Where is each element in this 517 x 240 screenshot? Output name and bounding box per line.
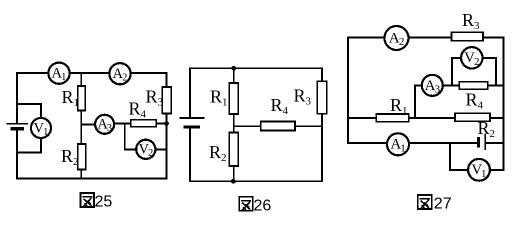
svg-text:R3: R3 xyxy=(462,10,480,32)
svg-text:R1: R1 xyxy=(62,87,80,109)
resistor R3 (circuit26) xyxy=(317,81,326,114)
ammeter A3 (circuit27) xyxy=(422,75,443,96)
ammeter A2 (circuit27) xyxy=(385,26,409,50)
ammeter A1 (circuit27) xyxy=(387,133,409,155)
wire top (circuit26) xyxy=(190,67,322,69)
resistor R1 (circuit27) xyxy=(376,114,409,122)
junction node top (circuit26) xyxy=(231,66,236,71)
svg-text:25: 25 xyxy=(95,194,113,211)
wire V1 branch right xyxy=(490,169,504,171)
resistor R2 (circuit27) xyxy=(455,113,490,121)
wire R1 row (circuit27) xyxy=(348,117,504,119)
resistor R4 xyxy=(131,120,157,127)
wire A3 to R4 xyxy=(114,122,167,124)
battery B3 short plate xyxy=(477,138,480,146)
wire V2 branch left xyxy=(452,57,461,59)
wire V1 branch left xyxy=(450,169,468,171)
wire bottom (circuit25) xyxy=(17,178,167,180)
wire A3 branch horizontal xyxy=(415,85,459,87)
wire left lower (circuit25) xyxy=(16,130,18,179)
resistor R1 (circuit26) xyxy=(229,83,238,114)
resistor R3 xyxy=(162,87,171,114)
wire top (circuit27) xyxy=(348,37,504,39)
svg-text:R3: R3 xyxy=(146,87,164,109)
wire bottom (circuit26) xyxy=(190,180,322,182)
wire V2 branch right xyxy=(155,149,167,151)
resistor R3 (circuit27) xyxy=(452,32,484,41)
wire bottom row (circuit27) xyxy=(348,142,477,144)
svg-text:R4: R4 xyxy=(271,95,289,117)
voltmeter V1 (circuit27) xyxy=(468,159,490,181)
wire V2 branch vertical xyxy=(124,123,126,149)
wire right edge (circuit26) xyxy=(321,68,323,181)
label figure26 glyph tu xyxy=(239,197,252,211)
svg-text:1: 1 xyxy=(61,72,66,83)
resistor R2 (circuit26) xyxy=(229,133,238,167)
svg-text:R2: R2 xyxy=(209,142,227,164)
wire V1 tap bottom xyxy=(17,138,41,153)
wire V1 tap top xyxy=(17,104,41,119)
wire V1 branch vertical left xyxy=(449,143,451,170)
wire left lower (circuit26) xyxy=(189,128,191,181)
voltmeter V2 (circuit27) xyxy=(461,47,482,68)
ammeter A2 xyxy=(109,63,130,84)
battery B3 long plate xyxy=(484,134,486,149)
voltmeter V1 xyxy=(31,118,51,138)
ammeter A1 xyxy=(48,63,69,84)
wire R4 row (circuit26) xyxy=(234,125,322,127)
wire middle branch (R1-R2) xyxy=(80,73,82,179)
svg-text:1: 1 xyxy=(400,142,406,154)
svg-text:1: 1 xyxy=(481,168,487,180)
wire R4 to right edge xyxy=(488,85,504,87)
ammeter A3 xyxy=(95,115,114,134)
svg-text:26: 26 xyxy=(254,198,272,215)
svg-text:R3: R3 xyxy=(294,86,312,108)
svg-text:27: 27 xyxy=(434,196,452,213)
svg-text:R4: R4 xyxy=(466,90,484,112)
svg-text:2: 2 xyxy=(474,56,480,68)
svg-text:2: 2 xyxy=(399,36,405,48)
voltmeter V2 xyxy=(136,140,155,159)
battery B2 short plate xyxy=(185,126,199,129)
wire left edge (circuit27) xyxy=(347,38,349,144)
resistor R4 (circuit27) xyxy=(459,82,488,89)
svg-text:1: 1 xyxy=(43,127,48,138)
label figure27 glyph tu xyxy=(418,195,432,209)
wire left upper (circuit26) xyxy=(189,68,191,117)
svg-text:R2: R2 xyxy=(61,146,79,168)
wire V2 branch right xyxy=(482,57,496,59)
svg-text:R1: R1 xyxy=(210,87,228,109)
resistor R1 xyxy=(78,86,86,111)
svg-text:R2: R2 xyxy=(478,118,496,140)
wire V2 branch vertical left xyxy=(451,58,453,86)
svg-text:3: 3 xyxy=(435,83,441,95)
svg-text:R1: R1 xyxy=(390,95,408,117)
resistor R2 xyxy=(78,144,86,170)
junction node bottom (circuit26) xyxy=(231,179,236,184)
label figure25 glyph tu xyxy=(81,193,94,207)
wire V2 branch left xyxy=(125,149,137,151)
wire middle branch (circuit26) xyxy=(233,68,235,181)
wire left upper (circuit25) xyxy=(16,73,18,123)
svg-text:R4: R4 xyxy=(129,99,147,121)
wire right edge (circuit27) xyxy=(503,38,505,171)
svg-text:3: 3 xyxy=(107,123,112,134)
svg-text:2: 2 xyxy=(122,73,127,84)
wire top (circuit25) xyxy=(17,72,167,74)
wire A3 branch vertical xyxy=(414,86,416,118)
wire A3 row xyxy=(81,123,96,125)
wire V2 branch vertical right xyxy=(495,58,497,86)
junction node R3/R4 xyxy=(164,121,169,126)
wire right upper (circuit25) xyxy=(166,73,168,87)
resistor R4 (circuit26) xyxy=(261,122,295,131)
battery B2 long plate xyxy=(181,117,204,119)
wire battery to right edge xyxy=(485,142,503,144)
battery B1 short plate xyxy=(12,127,22,130)
svg-text:2: 2 xyxy=(148,148,153,159)
battery B1 long plate xyxy=(8,123,28,125)
wire right lower (circuit25) xyxy=(166,112,168,179)
